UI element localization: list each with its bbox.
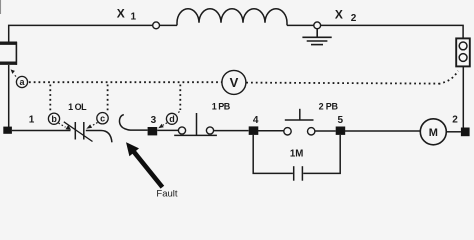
receptacle pin circle top <box>459 42 467 50</box>
seal-in contact 1M bars <box>293 166 295 181</box>
svg-text:1M: 1M <box>290 149 303 160</box>
svg-text:X: X <box>117 7 125 21</box>
wire top rail right <box>321 25 464 38</box>
svg-text:1 OL: 1 OL <box>68 102 87 112</box>
svg-text:Fault: Fault <box>156 189 177 200</box>
pushbutton 1PB (NC) <box>174 113 217 135</box>
test point c circle <box>97 113 108 124</box>
dotted rail curve to receptacle <box>439 71 459 84</box>
lifted wire (right side of fault break) <box>119 115 147 131</box>
test pointer a <box>14 75 16 77</box>
receptacle terminal block <box>456 38 470 66</box>
dotted branch to c <box>107 85 109 113</box>
svg-text:2: 2 <box>452 114 458 125</box>
svg-text:d: d <box>169 114 175 124</box>
svg-text:1: 1 <box>131 12 137 23</box>
wire <box>12 130 71 132</box>
motor starter coil M <box>420 119 446 145</box>
test pointer b <box>59 123 66 127</box>
svg-text:b: b <box>51 114 57 124</box>
test point b circle <box>48 113 59 124</box>
node X1 terminal circle <box>153 22 160 29</box>
ground node circle <box>314 22 321 29</box>
wire <box>315 130 336 132</box>
svg-text:X: X <box>335 8 343 22</box>
svg-text:M: M <box>429 127 438 139</box>
wire <box>160 24 178 26</box>
test point a circle <box>16 76 27 87</box>
test point d circle <box>166 113 177 124</box>
svg-text:1 PB: 1 PB <box>212 102 231 112</box>
test pointer d <box>163 123 167 125</box>
wire <box>257 130 283 132</box>
overload contact 1OL slash <box>64 122 93 142</box>
overload contact 1OL bars <box>74 122 76 140</box>
test pointer c <box>92 123 98 127</box>
wire right drop <box>462 67 464 128</box>
wire <box>287 24 314 26</box>
node 4 square <box>249 126 259 134</box>
fault arrow <box>134 152 162 187</box>
fuse F1 <box>0 42 17 65</box>
pushbutton 2PB (NO) <box>284 109 315 135</box>
wire <box>446 131 461 133</box>
wire <box>214 130 249 132</box>
ground symbol <box>302 29 331 45</box>
seal-in branch left <box>253 135 293 174</box>
wire with hook down (left side of fault break) <box>86 131 112 143</box>
svg-text:2: 2 <box>351 13 357 24</box>
dotted branch to d <box>179 85 181 111</box>
node 3 square <box>148 127 158 135</box>
wire top rail left <box>9 25 153 41</box>
node 2 square <box>461 128 470 137</box>
svg-text:1: 1 <box>29 115 35 126</box>
voltmeter dotted rail left <box>29 81 222 83</box>
svg-text:5: 5 <box>338 115 344 126</box>
wire <box>157 129 178 131</box>
node 5 square <box>336 127 346 135</box>
svg-text:3: 3 <box>151 115 157 126</box>
seal-in branch right <box>303 135 340 174</box>
edge artifact mark <box>0 0 2 14</box>
voltmeter V <box>222 70 246 94</box>
transformer secondary winding L1 <box>177 9 287 26</box>
receptacle pin circle bottom <box>459 54 467 62</box>
svg-text:V: V <box>230 75 239 90</box>
svg-text:4: 4 <box>253 115 259 126</box>
wire fuse to node 1 <box>8 65 10 127</box>
voltmeter dotted rail right <box>246 83 438 84</box>
svg-text:c: c <box>100 114 105 124</box>
dotted branch to b <box>49 85 51 112</box>
svg-text:2 PB: 2 PB <box>319 102 339 112</box>
node 1 square <box>3 127 12 134</box>
wire <box>345 130 421 132</box>
